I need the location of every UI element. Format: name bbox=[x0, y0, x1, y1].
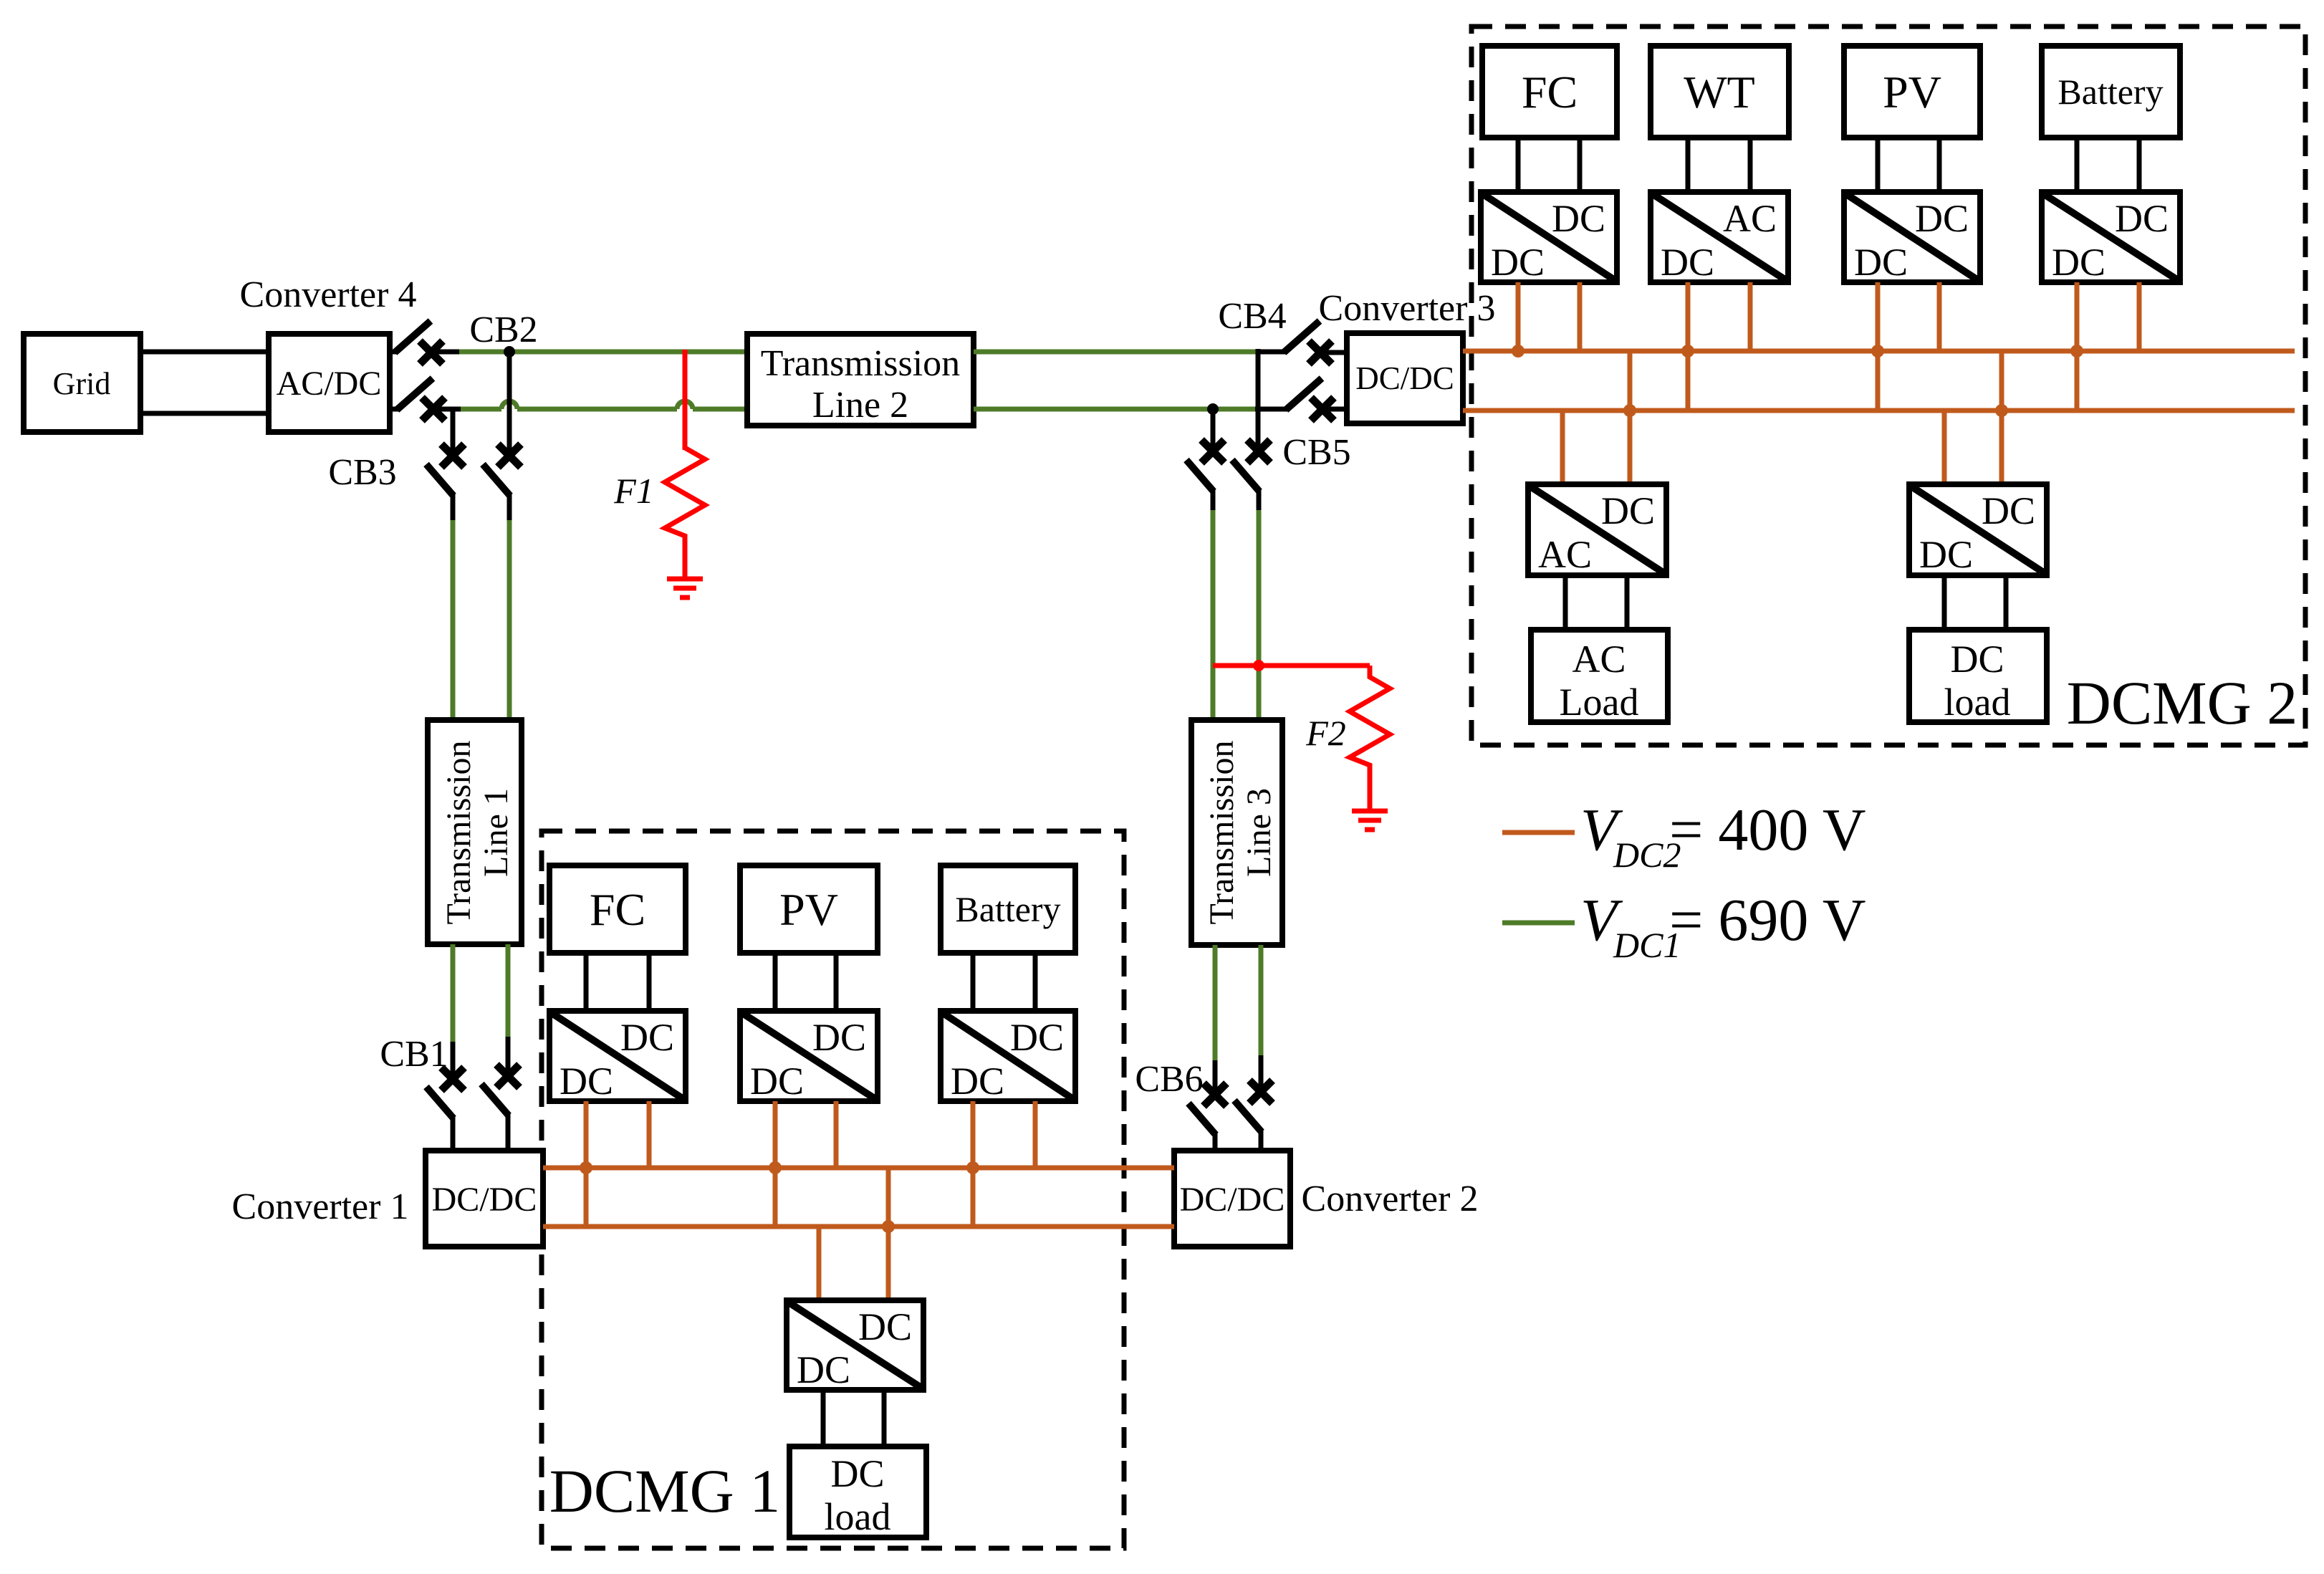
node junction on bus1 bbox=[504, 346, 515, 357]
orange drop PV left bbox=[773, 1101, 778, 1227]
wire green bus1 CB2 to TL2 bbox=[459, 350, 747, 355]
wire black stub to CB6 right bbox=[1259, 1055, 1264, 1095]
svg-text:WT: WT bbox=[1684, 67, 1755, 117]
transmission line 3 box bbox=[1191, 720, 1282, 945]
svg-text:Converter 2: Converter 2 bbox=[1302, 1179, 1479, 1219]
PV DC/DC converter (DCMG2) bbox=[1844, 192, 1980, 284]
wires WT to converter bbox=[1688, 138, 1750, 192]
svg-text:Grid: Grid bbox=[53, 366, 111, 401]
orange DC bus1 DCMG2 bbox=[1463, 349, 2295, 354]
svg-text:DC: DC bbox=[858, 1305, 912, 1348]
svg-text:CB5: CB5 bbox=[1282, 432, 1350, 473]
svg-text:DC/DC: DC/DC bbox=[1180, 1181, 1285, 1219]
wires converter to AC load bbox=[1565, 575, 1627, 630]
wire black stub to CB1 left bbox=[451, 1042, 456, 1082]
orange drop FC right bbox=[647, 1101, 652, 1168]
transmission line 1 box bbox=[428, 720, 522, 944]
orange drop to DC load converter left bbox=[817, 1227, 822, 1300]
svg-text:Transmission: Transmission bbox=[440, 741, 478, 925]
breaker CB2 lower pole bbox=[390, 378, 461, 421]
wire green CB5 to TL3 right bbox=[1257, 510, 1262, 720]
wire green TL3 to CB6 left bbox=[1213, 945, 1218, 1062]
legend green sample line bbox=[1502, 921, 1575, 926]
svg-text:FC: FC bbox=[1522, 67, 1578, 117]
svg-text:DC: DC bbox=[812, 1016, 866, 1059]
wind turbine WT box bbox=[1651, 46, 1789, 138]
svg-text:DCMG 2: DCMG 2 bbox=[2067, 668, 2298, 737]
svg-text:Load: Load bbox=[1560, 681, 1639, 724]
transmission line 2 box bbox=[747, 334, 974, 426]
breaker CB5 left pole bbox=[1186, 440, 1224, 512]
AC load DC/AC converter bbox=[1528, 484, 1666, 576]
orange drop PV right bbox=[834, 1101, 839, 1168]
breaker CB6 right pole bbox=[1234, 1080, 1272, 1152]
breaker CB4 upper pole bbox=[1258, 321, 1347, 364]
svg-text:DC: DC bbox=[830, 1452, 884, 1495]
svg-text:Converter 1: Converter 1 bbox=[232, 1186, 409, 1227]
wire green bus2 TL2 to CB4 bbox=[974, 407, 1255, 412]
wire green TL1 to CB1 left bbox=[451, 944, 456, 1043]
wires PV to converter bbox=[775, 953, 836, 1011]
svg-text:CB4: CB4 bbox=[1218, 296, 1286, 337]
orange drop to AC load converter left bbox=[1560, 411, 1565, 484]
AC load box bbox=[1531, 630, 1668, 724]
node junction on green bus2 at CB5 bbox=[1207, 403, 1219, 415]
orange drop PV left bbox=[1876, 282, 1881, 411]
svg-text:DC: DC bbox=[1854, 241, 1908, 284]
wire green TL3 to CB6 right bbox=[1259, 945, 1264, 1057]
svg-text:= 400 V: = 400 V bbox=[1669, 797, 1866, 863]
svg-text:Battery: Battery bbox=[2057, 72, 2163, 112]
breaker CB3 left pole bbox=[426, 444, 464, 522]
wire grid to converter 4 (lower) bbox=[140, 411, 269, 416]
svg-text:AC: AC bbox=[1538, 533, 1592, 576]
svg-text:DC: DC bbox=[2115, 197, 2169, 240]
svg-text:CB3: CB3 bbox=[328, 452, 396, 493]
svg-text:CB6: CB6 bbox=[1135, 1059, 1203, 1100]
svg-text:DC: DC bbox=[560, 1060, 613, 1103]
orange DC bus1 DCMG1 bbox=[543, 1166, 1174, 1171]
svg-text:DC: DC bbox=[1915, 197, 1969, 240]
orange drop battery right bbox=[1033, 1101, 1038, 1168]
svg-text:CB1: CB1 bbox=[380, 1034, 448, 1075]
svg-text:Line 3: Line 3 bbox=[1240, 788, 1278, 877]
orange drop battery left bbox=[971, 1101, 976, 1227]
svg-text:DC: DC bbox=[620, 1016, 674, 1059]
node dot on orange bus2 bbox=[882, 1220, 895, 1233]
svg-text:Transmission: Transmission bbox=[761, 343, 960, 384]
node dots on orange bus1 bbox=[580, 1161, 979, 1174]
battery DC/DC converter (DCMG2) bbox=[2042, 192, 2180, 284]
wire black drop x1693 bus2 to CB5 bbox=[1211, 409, 1216, 454]
fault F2 tap wire (red) bbox=[1213, 663, 1370, 668]
DC load DC/DC converter (DCMG2) bbox=[1909, 484, 2047, 576]
svg-text:Battery: Battery bbox=[955, 889, 1060, 929]
orange drop to DC load converter right bbox=[886, 1227, 891, 1300]
svg-text:= 690 V: = 690 V bbox=[1669, 887, 1866, 954]
breaker CB1 right pole bbox=[481, 1065, 519, 1152]
battery box (DCMG2) bbox=[2042, 46, 2180, 138]
svg-text:DC: DC bbox=[1552, 197, 1605, 240]
svg-text:DC: DC bbox=[1010, 1016, 1064, 1059]
legend orange sample line bbox=[1502, 830, 1575, 835]
svg-text:F1: F1 bbox=[613, 471, 654, 511]
orange drop to DC load converter left bbox=[1942, 411, 1947, 484]
orange tie bus1-bus2 x2794 bbox=[1999, 351, 2004, 411]
svg-text:AC: AC bbox=[1572, 638, 1626, 681]
orange DC bus2 DCMG1 bbox=[543, 1224, 1174, 1229]
converter 1 DC/DC box bbox=[426, 1151, 543, 1247]
orange tie bus1-bus2 x2275 bbox=[1628, 351, 1633, 411]
FC DC/DC converter (DCMG2) bbox=[1481, 192, 1617, 284]
svg-text:DC/DC: DC/DC bbox=[432, 1181, 537, 1219]
svg-text:Converter 4: Converter 4 bbox=[240, 274, 417, 315]
PV box (DCMG2) bbox=[1844, 46, 1980, 138]
fault F2 ground bbox=[1352, 811, 1388, 830]
breaker CB1 left pole bbox=[426, 1067, 464, 1152]
orange DC bus2 DCMG2 bbox=[1463, 408, 2295, 413]
svg-text:DC: DC bbox=[750, 1060, 804, 1103]
svg-text:AC/DC: AC/DC bbox=[277, 365, 382, 403]
wire green transmission line 1 upper feed right bbox=[507, 520, 512, 720]
node dots on orange bus1 bbox=[1512, 345, 2083, 357]
converter 4 AC/DC box bbox=[269, 334, 390, 432]
fault F1 tap wire (red) bbox=[683, 350, 688, 450]
orange drop WT left bbox=[1686, 282, 1691, 411]
svg-text:FC: FC bbox=[590, 884, 645, 935]
svg-text:PV: PV bbox=[779, 884, 838, 935]
breaker CB2 upper pole bbox=[390, 321, 460, 364]
wire green CB5 to TL3 left bbox=[1211, 510, 1216, 720]
PV box (DCMG1) bbox=[740, 865, 878, 953]
svg-text:DC: DC bbox=[1491, 241, 1545, 284]
svg-text:Transmission: Transmission bbox=[1203, 741, 1241, 925]
svg-text:AC: AC bbox=[1723, 197, 1777, 240]
svg-text:Converter 3: Converter 3 bbox=[1319, 288, 1496, 329]
legend VDC2 = 400 V bbox=[1580, 797, 1866, 875]
DCMG 2 dashed boundary bbox=[1471, 27, 2305, 745]
wires battery to converter bbox=[973, 953, 1035, 1011]
wire black drop x632 bus2 to CB3 bbox=[451, 409, 456, 459]
wire grid to converter 4 (upper) bbox=[140, 350, 269, 355]
svg-text:Line 2: Line 2 bbox=[812, 385, 908, 426]
battery DC/DC converter (DCMG1) bbox=[941, 1011, 1075, 1103]
DC load box (DCMG2) bbox=[1909, 630, 2047, 724]
orange drop battery right bbox=[2137, 282, 2142, 351]
orange drop FC left bbox=[584, 1101, 589, 1227]
wires FC to converter bbox=[586, 953, 649, 1011]
breaker CB3 right pole bbox=[483, 444, 521, 522]
node dots on orange bus2 bbox=[1623, 404, 2008, 417]
node junction F2 on green wire bbox=[1253, 660, 1264, 671]
wire black stub to CB6 left bbox=[1213, 1060, 1218, 1098]
breaker CB4 lower pole bbox=[1255, 378, 1347, 421]
wire black drop x711 bus1 to CB3 bbox=[507, 352, 512, 459]
svg-text:DC: DC bbox=[1661, 241, 1714, 284]
svg-text:Line 1: Line 1 bbox=[477, 788, 515, 877]
svg-text:DC: DC bbox=[1982, 489, 2035, 532]
svg-text:DCMG 1: DCMG 1 bbox=[549, 1457, 781, 1525]
svg-text:CB2: CB2 bbox=[469, 309, 537, 350]
svg-text:DC: DC bbox=[1919, 533, 1973, 576]
DCMG 1 dashed boundary bbox=[542, 831, 1124, 1548]
wires converter to DC load bbox=[1944, 575, 2006, 630]
wire green bus2 CB2 to TL2 (hops at x711 and x956) bbox=[461, 401, 747, 409]
svg-text:PV: PV bbox=[1883, 67, 1941, 117]
svg-text:F2: F2 bbox=[1305, 713, 1346, 753]
PV DC/DC converter (DCMG1) bbox=[740, 1011, 878, 1103]
svg-text:DC: DC bbox=[1950, 638, 2004, 681]
svg-text:DC: DC bbox=[797, 1348, 850, 1391]
orange drop to AC load converter right bbox=[1628, 411, 1633, 484]
wire black stub to CB1 right bbox=[506, 1037, 511, 1079]
orange drop FC right bbox=[1578, 282, 1583, 351]
WT AC/DC converter (DCMG2) bbox=[1651, 192, 1788, 284]
svg-text:load: load bbox=[1944, 681, 2011, 724]
orange drop WT right bbox=[1748, 282, 1753, 351]
wire green bus1 TL2 to CB4 bbox=[974, 350, 1258, 355]
svg-text:DC: DC bbox=[2052, 241, 2105, 284]
legend VDC1 = 690 V bbox=[1580, 887, 1866, 965]
fuel cell FC box (DCMG2) bbox=[1482, 46, 1617, 138]
svg-text:load: load bbox=[825, 1495, 891, 1538]
orange stub converter3 upper bbox=[1463, 349, 1471, 354]
DC load box (DCMG1) bbox=[789, 1446, 926, 1538]
orange tie bus1-bus2 x1240 bbox=[886, 1168, 891, 1227]
orange drop battery left bbox=[2075, 282, 2080, 411]
DC load DC/DC converter (DCMG1) bbox=[787, 1300, 923, 1391]
converter 3 DC/DC box bbox=[1347, 333, 1463, 423]
converter 2 DC/DC box bbox=[1174, 1151, 1290, 1247]
orange drop to DC load converter right bbox=[1999, 411, 2004, 484]
wires PV to converter bbox=[1878, 138, 1939, 192]
svg-text:DC/DC: DC/DC bbox=[1355, 360, 1454, 396]
wire green transmission line 1 upper feed left bbox=[451, 520, 456, 720]
wire green TL1 to CB1 right bbox=[506, 944, 511, 1038]
FC DC/DC converter (DCMG1) bbox=[549, 1011, 686, 1103]
breaker CB6 left pole bbox=[1189, 1083, 1226, 1152]
wires FC to converter bbox=[1518, 138, 1580, 192]
wire black corner drop x1756 bbox=[1256, 349, 1261, 454]
fault F2 resistor bbox=[1350, 666, 1390, 810]
battery box (DCMG1) bbox=[941, 865, 1075, 953]
fault F1 ground bbox=[667, 579, 703, 598]
breaker CB5 right pole bbox=[1232, 440, 1270, 512]
fuel cell FC box (DCMG1) bbox=[549, 865, 686, 953]
wires converter to DC load bbox=[823, 1390, 884, 1446]
orange drop PV right bbox=[1937, 282, 1942, 351]
svg-text:DC: DC bbox=[951, 1060, 1004, 1103]
utility grid box bbox=[24, 334, 140, 432]
wires battery to converter bbox=[2077, 138, 2139, 192]
orange drop FC left bbox=[1516, 282, 1521, 351]
svg-text:DC: DC bbox=[1601, 489, 1655, 532]
fault F1 resistor bbox=[665, 448, 705, 577]
